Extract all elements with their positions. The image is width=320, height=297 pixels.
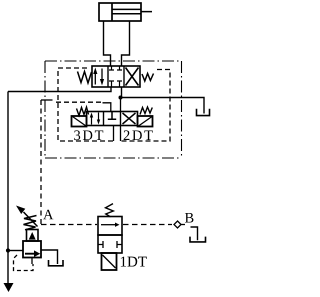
enclosure chain box	[45, 61, 182, 158]
main valve left spring	[78, 72, 92, 84]
remote control branch (dashed)	[56, 101, 102, 103]
tank line from main valve	[121, 87, 123, 98]
main valve U1 body	[92, 66, 140, 87]
tank symbol top right	[197, 109, 210, 116]
blocked ports in lower square	[98, 241, 122, 248]
pilot line left (dashed)	[58, 68, 114, 141]
solenoid 2DT	[138, 116, 153, 127]
unloading valve flow arrow	[101, 224, 116, 226]
unloading valve spring	[106, 204, 114, 217]
adjustment arrow	[24, 212, 38, 227]
pilot valve right spring	[140, 107, 152, 115]
node junction dot	[119, 96, 123, 100]
cylinder port legs	[104, 21, 130, 66]
tank symbol bottom right	[190, 237, 206, 242]
tank line to top-right tank	[121, 98, 205, 114]
relief valve arrow	[25, 253, 36, 255]
label 1DT	[121, 257, 147, 267]
pilot poppet	[29, 232, 36, 240]
relief valve drain (dashed)	[14, 255, 34, 271]
tank symbol under relief outlet	[49, 260, 64, 266]
pilot valve left position arrows	[90, 113, 100, 125]
solenoid 3DT	[72, 116, 87, 127]
node B label	[185, 213, 194, 223]
pilot valve left spring	[77, 107, 89, 116]
label 3DT	[74, 130, 103, 140]
pilot valve bottom port stubs	[114, 126, 121, 142]
relief valve spring	[24, 216, 37, 230]
unloading valve 1DT upper square	[98, 217, 122, 236]
pump pressure line	[7, 92, 9, 284]
remote control line to node A (dashed)	[40, 100, 42, 225]
cylinder rod	[112, 9, 152, 13]
main valve right position crossed arrows	[126, 68, 139, 86]
relief valve outlet to tank	[41, 250, 58, 264]
line from B to tank	[191, 227, 198, 240]
solenoid 1DT	[102, 253, 117, 270]
remote control line A to B (dashed)	[41, 224, 97, 226]
pilot A connection to pilot valve	[103, 103, 111, 112]
relief valve pilot box	[27, 230, 39, 242]
pilot line right (dashed)	[121, 70, 171, 142]
pilot valve right position crossed arrows	[123, 113, 136, 124]
pilot valve V2 body	[87, 112, 138, 126]
relief valve body	[23, 241, 41, 258]
plug diamond	[174, 221, 181, 228]
relief valve bottom port	[31, 258, 33, 265]
node A label	[43, 210, 53, 220]
label 2DT	[124, 130, 153, 140]
main valve right spring	[142, 74, 154, 82]
pilot valve centre blocked ports	[108, 112, 116, 120]
unloading valve lower square	[98, 235, 122, 253]
pilot valve T port line	[120, 98, 122, 112]
wire diamond to node B	[181, 224, 185, 226]
cylinder body	[99, 3, 141, 21]
pressure line P to main valve	[8, 87, 111, 92]
main valve left position arrows	[93, 68, 104, 86]
remote control tap stub	[41, 99, 53, 101]
junction dot at relief valve	[6, 248, 10, 252]
flow arrow at line end	[4, 283, 14, 292]
relief valve inlet line	[8, 250, 23, 252]
cylinder piston	[111, 3, 113, 21]
main valve centre blocked ports	[109, 66, 122, 87]
